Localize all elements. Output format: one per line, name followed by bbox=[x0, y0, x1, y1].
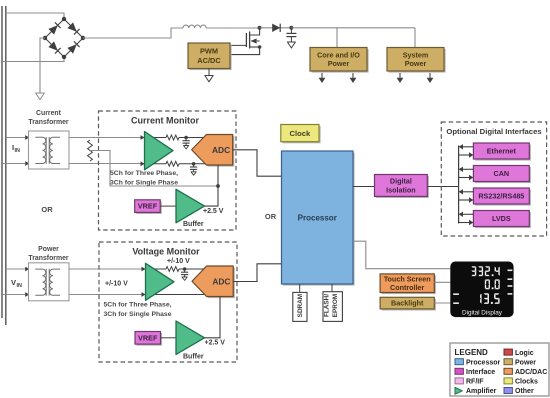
label 5Ch/3Ch (current) bbox=[110, 170, 178, 186]
power output arrow bbox=[427, 73, 434, 83]
node (bridge bottom) bbox=[62, 55, 66, 59]
amplifier (voltage input amp) bbox=[146, 263, 175, 300]
label Buffer bbox=[183, 221, 204, 228]
wire - PT secondary top bbox=[69, 268, 145, 270]
capacitor (voltage filter) bbox=[181, 269, 188, 280]
legend title bbox=[455, 348, 489, 357]
legend swatch Logic bbox=[504, 349, 534, 357]
node (filter bottom) bbox=[192, 162, 196, 166]
arrow (to block) bbox=[459, 175, 474, 180]
wire - V sense bottom bbox=[2, 294, 25, 296]
node (reference junction) bbox=[216, 184, 220, 188]
svg-text:VREF: VREF bbox=[138, 333, 158, 342]
Ethernet block bbox=[473, 143, 531, 161]
svg-text:ADC: ADC bbox=[212, 145, 230, 155]
Digital Display bbox=[450, 262, 513, 318]
capacitor (filter top) bbox=[183, 138, 190, 149]
svg-text:IN: IN bbox=[15, 148, 20, 154]
node (bridge top) bbox=[62, 17, 66, 21]
wire - bridge output to inductor bbox=[83, 28, 183, 38]
wire bbox=[179, 268, 206, 270]
RS232/RS485 block bbox=[473, 188, 531, 206]
VREF (current monitor) bbox=[135, 200, 162, 214]
svg-text:Amplifier: Amplifier bbox=[466, 388, 497, 395]
LVDS block bbox=[473, 211, 531, 229]
arrow (to bus) bbox=[459, 144, 474, 149]
resistor (current filter top) bbox=[166, 135, 179, 140]
svg-text:Clocks: Clocks bbox=[515, 379, 538, 386]
label OR (left) bbox=[41, 205, 53, 214]
svg-text:EPROM: EPROM bbox=[332, 294, 339, 317]
amplifier (current input amp) bbox=[145, 132, 174, 170]
svg-text:3Ch for Single Phase: 3Ch for Single Phase bbox=[110, 179, 178, 186]
svg-text:ADC: ADC bbox=[212, 276, 230, 286]
PWM AC/DC controller U1 bbox=[188, 43, 232, 70]
svg-text:FLASH/: FLASH/ bbox=[324, 294, 331, 317]
node (switch/drain) bbox=[258, 26, 262, 30]
arrowhead into power transformer bbox=[25, 292, 29, 297]
svg-text:Current: Current bbox=[36, 110, 62, 117]
power transformer T2 bbox=[28, 246, 69, 301]
arrowhead into current transformer bbox=[25, 161, 29, 166]
wire - gate to PWM controller bbox=[229, 44, 246, 46]
VREF (voltage monitor) bbox=[135, 332, 162, 346]
Current Monitor dashed box bbox=[99, 111, 237, 230]
svg-text:Processor: Processor bbox=[298, 213, 337, 222]
svg-text:Core and I/O: Core and I/O bbox=[317, 50, 360, 59]
wire - PT secondary bottom bbox=[69, 294, 145, 296]
Processor block bbox=[282, 151, 355, 286]
svg-text:Transformer: Transformer bbox=[28, 119, 69, 126]
diode (bridge bottom-right) bbox=[67, 41, 79, 53]
legend swatch Interface bbox=[455, 368, 495, 376]
Core and I/O Power block bbox=[310, 48, 369, 73]
wire - backlight to display bbox=[434, 302, 450, 304]
wire bbox=[179, 137, 206, 139]
arrow (to bus) bbox=[459, 167, 474, 172]
label +2.5 V bbox=[205, 339, 226, 346]
diode bridge rectifier bbox=[45, 19, 83, 57]
svg-text:Other: Other bbox=[515, 388, 534, 395]
svg-text:+/-10 V: +/-10 V bbox=[167, 258, 190, 265]
svg-text:Controller: Controller bbox=[390, 283, 425, 292]
wire - processor to digital isolation bbox=[353, 186, 375, 188]
FLASH/EPROM block bbox=[323, 292, 342, 322]
label +/-10 V (inputs) bbox=[105, 281, 128, 288]
node (bridge left) bbox=[43, 36, 47, 40]
System Power block bbox=[387, 48, 446, 73]
svg-text:RF/IF: RF/IF bbox=[466, 379, 484, 386]
current transformer T1 bbox=[28, 110, 69, 169]
svg-text:OR: OR bbox=[41, 205, 53, 214]
wire - v-amp output bottom bbox=[145, 294, 207, 296]
label VIN bbox=[11, 278, 22, 289]
wire - I sense top bbox=[6, 137, 25, 139]
svg-text:3Ch for Single Phase: 3Ch for Single Phase bbox=[104, 311, 172, 318]
resistor (burden) bbox=[88, 140, 93, 161]
node (bridge right) bbox=[81, 36, 85, 40]
wire bbox=[179, 163, 206, 165]
svg-text:CAN: CAN bbox=[494, 169, 510, 178]
svg-text:Clock: Clock bbox=[290, 129, 311, 138]
wire - I sense bottom bbox=[2, 163, 25, 165]
wire - v-amp output top bbox=[145, 268, 167, 270]
arrowhead (v-amp input+) bbox=[142, 267, 146, 272]
arrow (to block) bbox=[459, 197, 474, 202]
svg-text:Transformer: Transformer bbox=[28, 255, 69, 262]
diode (bridge top-right) bbox=[67, 22, 79, 34]
svg-text:Logic: Logic bbox=[515, 350, 534, 357]
svg-text:Power: Power bbox=[515, 359, 536, 366]
legend swatch Amplifier bbox=[455, 387, 497, 395]
svg-text:Processor: Processor bbox=[466, 359, 501, 366]
wire - CT secondary bottom bbox=[69, 163, 144, 165]
legend swatch RF/IF bbox=[455, 378, 484, 386]
diode (bridge left-bottom) bbox=[48, 41, 60, 53]
label Buffer bbox=[183, 354, 204, 361]
wire - amp output top bbox=[144, 137, 167, 139]
wire - AC line input bus (two vertical rails) bbox=[2, 6, 6, 325]
svg-text:Backlight: Backlight bbox=[391, 299, 424, 308]
amplifier (reference buffer) bbox=[176, 189, 205, 223]
wire - burden tap to reference node bbox=[90, 151, 218, 187]
Voltage Monitor dashed box bbox=[99, 242, 237, 362]
wire - amp output bottom bbox=[144, 163, 167, 165]
node (rectified output) bbox=[289, 26, 293, 30]
svg-text:PWM: PWM bbox=[200, 47, 218, 56]
power output arrow bbox=[397, 73, 404, 83]
arrowhead (amp input+) bbox=[141, 135, 145, 140]
wire - buffer to ADC reference bbox=[205, 165, 219, 206]
label IIN bbox=[12, 143, 20, 154]
wire - processor to display bbox=[353, 241, 450, 269]
svg-text:Buffer: Buffer bbox=[183, 221, 204, 228]
diode (output rectifier) bbox=[260, 24, 292, 32]
label OR (center) bbox=[265, 212, 277, 221]
wire - processor to FLASH/EPROM bbox=[331, 284, 333, 292]
node (filter top) bbox=[184, 136, 188, 140]
svg-text:Voltage Monitor: Voltage Monitor bbox=[132, 247, 200, 257]
svg-text:+/-10 V: +/-10 V bbox=[105, 281, 128, 288]
svg-text:SDRAM: SDRAM bbox=[297, 294, 304, 317]
transistor (PWM switching MOSFET) bbox=[246, 28, 259, 49]
arrow (to block) bbox=[459, 220, 474, 225]
arrowhead (amp input-) bbox=[141, 161, 145, 166]
svg-text:IN: IN bbox=[17, 283, 22, 289]
svg-text:Power: Power bbox=[38, 246, 59, 253]
svg-text:VREF: VREF bbox=[138, 202, 158, 211]
wire - processor to SDRAM bbox=[299, 284, 301, 292]
resistor (current filter bottom) bbox=[166, 161, 179, 166]
inductor (boost) bbox=[183, 25, 206, 28]
svg-text:+2.5 V: +2.5 V bbox=[203, 208, 224, 215]
power output arrow bbox=[319, 73, 326, 83]
ground (bridge) bbox=[36, 93, 45, 100]
Backlight block bbox=[380, 297, 436, 310]
resistor (voltage filter) bbox=[166, 267, 179, 272]
arrowhead into power transformer bbox=[25, 267, 29, 272]
wire - voltage ADC to processor bbox=[233, 264, 281, 282]
wire - interface bus bbox=[458, 146, 460, 224]
svg-text:Ethernet: Ethernet bbox=[487, 147, 517, 156]
svg-text:LEGEND: LEGEND bbox=[455, 348, 489, 357]
legend box bbox=[450, 343, 549, 396]
Clock block bbox=[281, 125, 321, 144]
svg-text:AC/DC: AC/DC bbox=[197, 56, 221, 65]
arrow (to bus) bbox=[459, 189, 474, 194]
wire - output rail to power blocks bbox=[291, 28, 415, 48]
node (MOSFET source) bbox=[258, 45, 262, 49]
wire - V sense top bbox=[6, 268, 25, 270]
legend swatch Power bbox=[504, 359, 536, 367]
SDRAM block bbox=[293, 292, 307, 321]
svg-text:Power: Power bbox=[405, 59, 427, 68]
legend swatch Other bbox=[504, 388, 534, 396]
svg-text:5Ch for Three Phase,: 5Ch for Three Phase, bbox=[110, 170, 178, 177]
svg-text:OR: OR bbox=[265, 212, 277, 221]
wire - touch controller to display bbox=[434, 281, 450, 283]
svg-text:RS232/RS485: RS232/RS485 bbox=[478, 192, 524, 201]
wire - source to PWM controller bbox=[229, 47, 260, 55]
diode (bridge left-top) bbox=[48, 22, 60, 34]
label +/-10 V (filter) bbox=[167, 258, 190, 265]
svg-text:ADC/DAC: ADC/DAC bbox=[515, 369, 547, 376]
wire - bridge left vertex to ground bbox=[40, 38, 45, 93]
capacitor (output filter) bbox=[286, 28, 296, 42]
Digital Isolation block bbox=[375, 175, 429, 199]
svg-text:Buffer: Buffer bbox=[183, 354, 204, 361]
svg-text:System: System bbox=[403, 50, 429, 59]
svg-text:5Ch for Three Phase,: 5Ch for Three Phase, bbox=[104, 302, 172, 309]
svg-text:LVDS: LVDS bbox=[492, 214, 511, 223]
CAN block bbox=[473, 166, 531, 184]
wire - VREF to buffer bbox=[160, 205, 176, 207]
svg-text:Current Monitor: Current Monitor bbox=[131, 116, 199, 126]
amplifier (voltage reference buffer) bbox=[176, 321, 205, 355]
wire - AC hot to bridge top bbox=[6, 13, 64, 19]
svg-text:Isolation: Isolation bbox=[386, 185, 416, 194]
wire - CT secondary top bbox=[69, 137, 144, 139]
legend swatch Processor bbox=[455, 359, 501, 367]
power output arrow bbox=[350, 73, 357, 83]
wire - isolation to interface bus bbox=[427, 186, 458, 188]
capacitor (filter bottom) bbox=[190, 164, 197, 175]
svg-text:Digital Display: Digital Display bbox=[462, 310, 503, 317]
ADC (voltage) U3 bbox=[192, 266, 235, 298]
label 5Ch/3Ch (voltage) bbox=[104, 302, 172, 318]
ADC (current) U2 bbox=[192, 135, 235, 167]
wire - AC return to bridge bottom bbox=[2, 57, 64, 62]
label +2.5 V bbox=[203, 208, 224, 215]
legend swatch Clocks bbox=[504, 378, 538, 386]
ground (output filter) bbox=[287, 42, 295, 48]
svg-text:Optional Digital Interfaces: Optional Digital Interfaces bbox=[446, 127, 541, 136]
svg-text:Interface: Interface bbox=[466, 369, 495, 376]
wire - VREF to buffer bbox=[161, 337, 177, 339]
legend swatch ADC/DAC bbox=[504, 368, 547, 376]
arrow (to bus) bbox=[459, 212, 474, 217]
Optional Digital Interfaces dashed box bbox=[441, 122, 546, 236]
svg-text:Power: Power bbox=[328, 59, 350, 68]
svg-text:+2.5 V: +2.5 V bbox=[205, 339, 226, 346]
node (v filter) bbox=[183, 267, 187, 271]
wire - current ADC to processor bbox=[233, 150, 282, 176]
wire - inductor to switch node bbox=[206, 27, 259, 29]
arrowhead (v-amp input-) bbox=[142, 292, 146, 297]
arrowhead into current transformer bbox=[25, 135, 29, 140]
Touch Screen Controller block bbox=[380, 274, 436, 294]
ground (PWM controller) bbox=[205, 69, 213, 82]
arrow (to block) bbox=[459, 152, 474, 157]
wire - buffer to ADC reference bbox=[205, 297, 221, 338]
